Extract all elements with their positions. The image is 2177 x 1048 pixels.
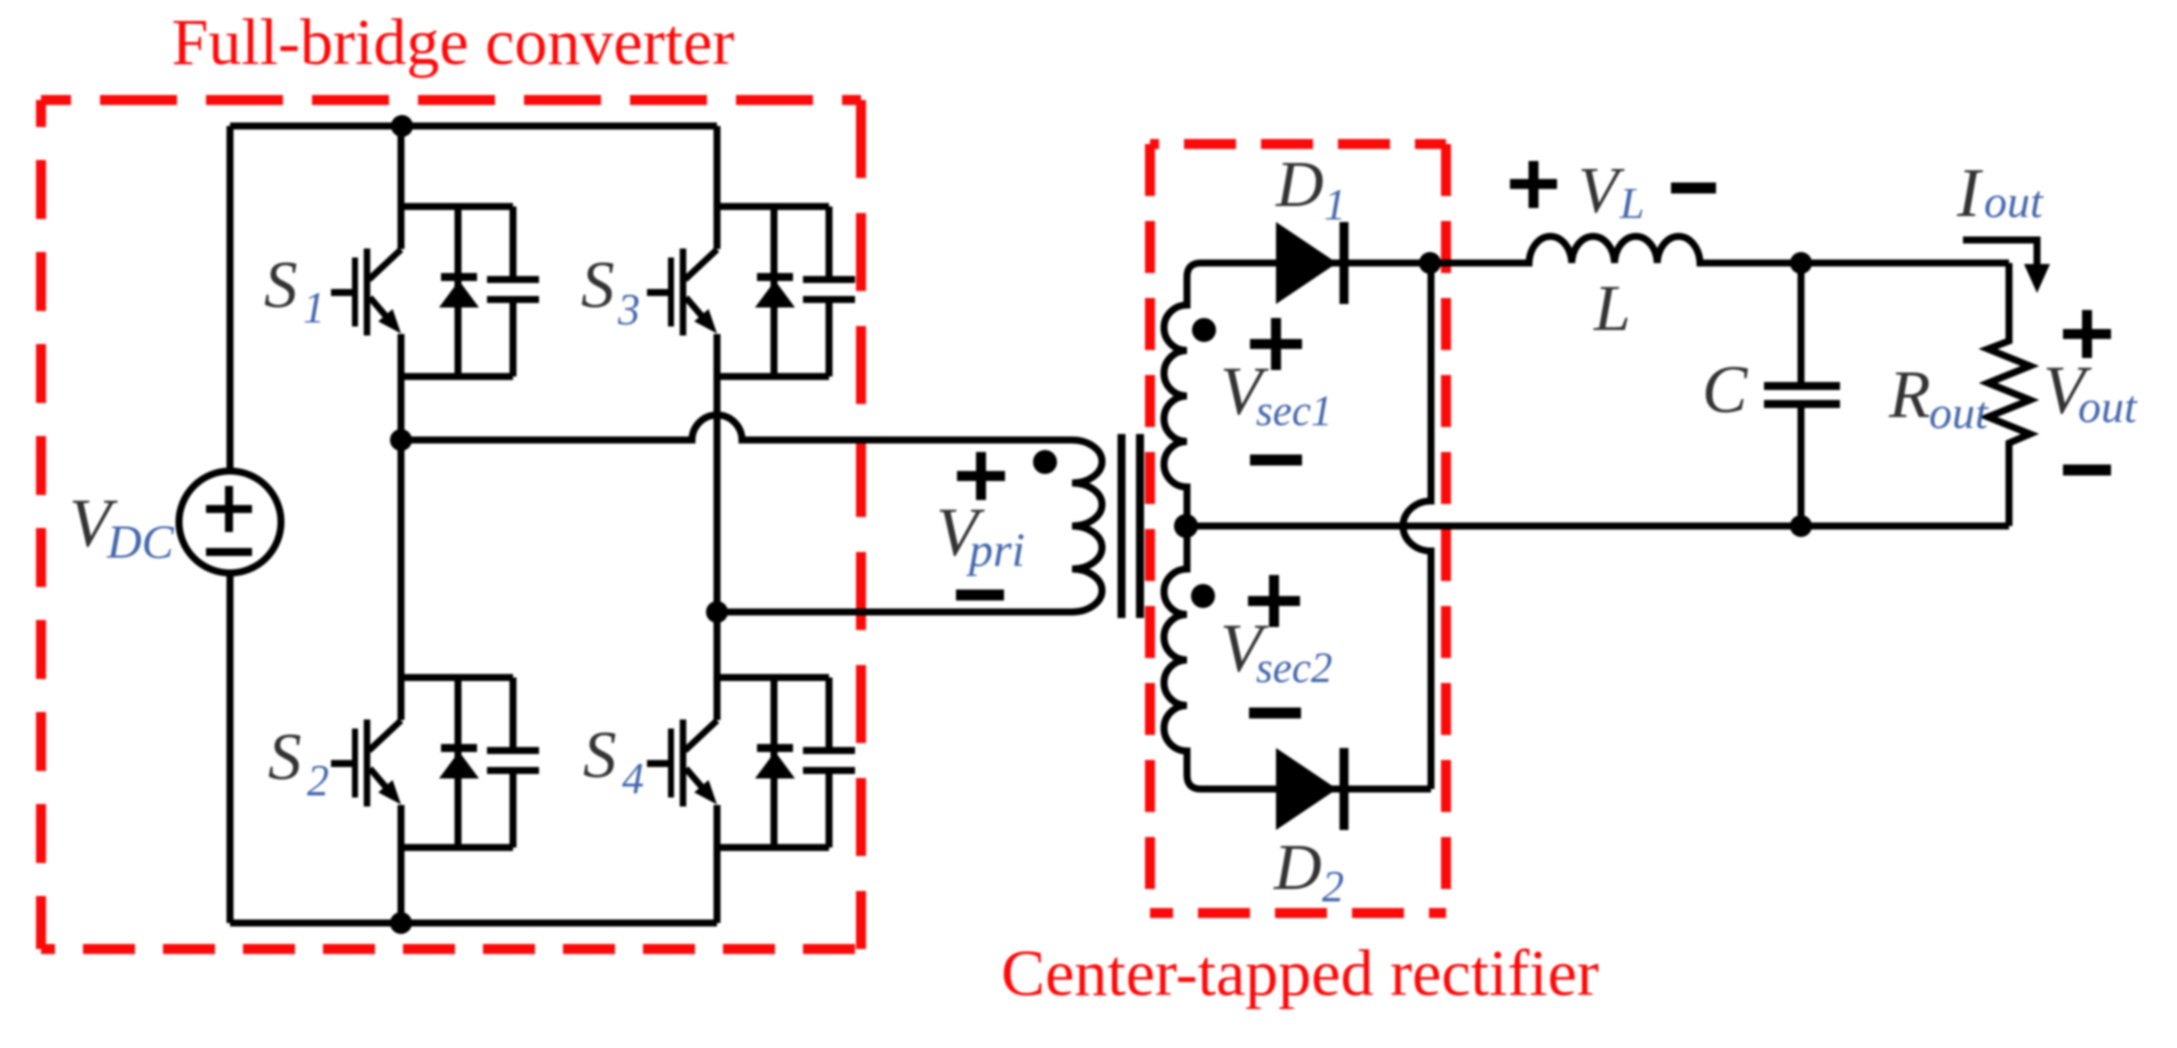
- svg-text:Full-bridge converter: Full-bridge converter: [172, 6, 735, 79]
- svg-text:1: 1: [1324, 180, 1346, 229]
- svg-text:L: L: [1593, 272, 1631, 345]
- svg-text:D: D: [1275, 148, 1324, 221]
- svg-text:S: S: [268, 720, 302, 794]
- svg-text:out: out: [1984, 176, 2044, 227]
- svg-text:out: out: [2078, 381, 2138, 432]
- svg-text:L: L: [1619, 179, 1644, 228]
- svg-text:V: V: [1578, 154, 1625, 227]
- svg-text:out: out: [1929, 387, 1989, 438]
- svg-text:S: S: [264, 248, 298, 322]
- svg-text:3: 3: [617, 285, 640, 334]
- svg-text:Center-tapped rectifier: Center-tapped rectifier: [1001, 937, 1599, 1010]
- svg-text:2: 2: [1322, 862, 1344, 911]
- svg-text:1: 1: [303, 283, 325, 332]
- svg-text:S: S: [581, 248, 615, 322]
- svg-text:C: C: [1702, 351, 1748, 427]
- svg-text:pri: pri: [966, 524, 1025, 577]
- svg-text:R: R: [1888, 356, 1931, 432]
- svg-text:sec2: sec2: [1256, 645, 1332, 692]
- svg-text:S: S: [583, 718, 617, 792]
- svg-text:D: D: [1273, 831, 1322, 904]
- svg-text:sec1: sec1: [1256, 388, 1332, 435]
- svg-text:DC: DC: [106, 516, 175, 569]
- svg-text:2: 2: [307, 756, 329, 805]
- svg-text:I: I: [1956, 155, 1984, 232]
- svg-text:4: 4: [622, 754, 644, 803]
